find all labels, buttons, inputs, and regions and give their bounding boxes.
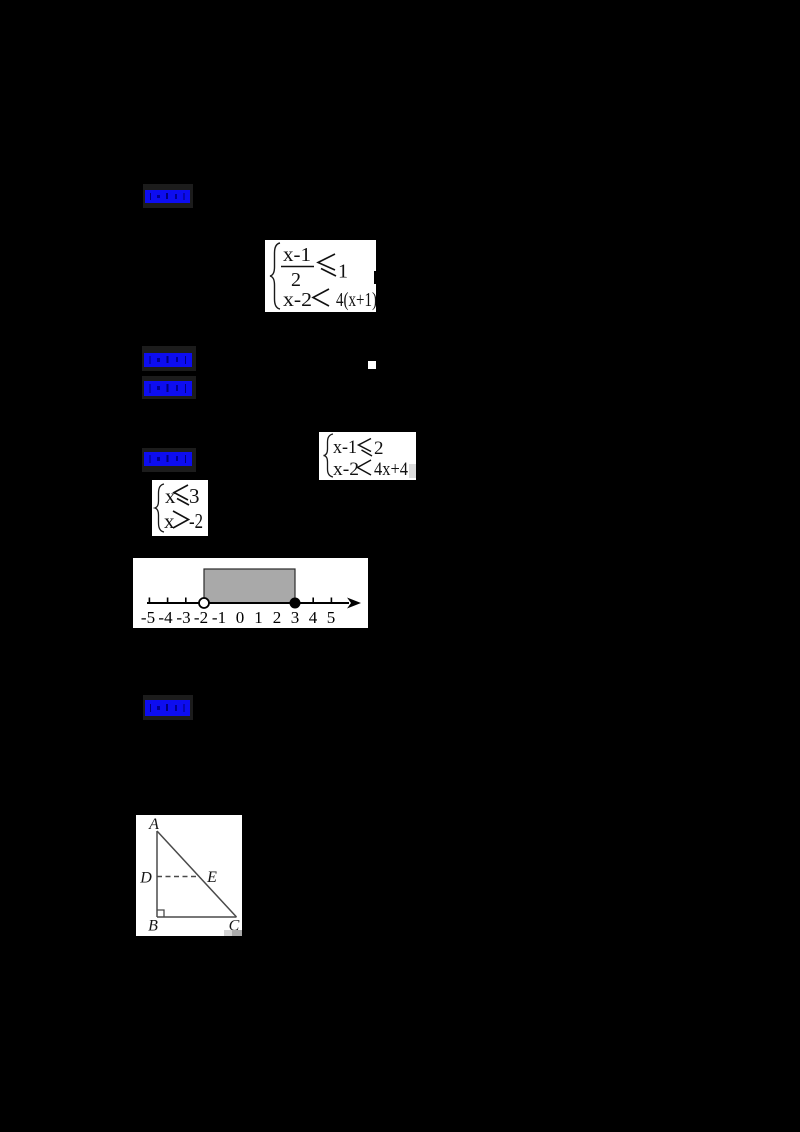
side BC (horizontal) bbox=[157, 916, 237, 918]
svg-text:-3: -3 bbox=[176, 608, 190, 627]
svg-text:x: x bbox=[165, 484, 176, 508]
right angle mark at B bbox=[157, 910, 164, 917]
formula box 2: system {x-1<=2 ; x-2<4x+4} bbox=[319, 432, 416, 480]
left curly brace bbox=[155, 484, 164, 532]
svg-text:4: 4 bbox=[309, 608, 318, 627]
arrow head bbox=[347, 598, 361, 609]
tick marks bbox=[149, 598, 331, 604]
label 3 blue text blob bbox=[144, 380, 193, 397]
number labels bbox=[141, 608, 335, 627]
label 4 blue text blob bbox=[144, 451, 193, 467]
left curly brace bbox=[324, 434, 334, 477]
light gray artifact patch bottom-right of box 2 bbox=[409, 464, 416, 478]
svg-text:-5: -5 bbox=[141, 608, 155, 627]
label 2 blue text blob bbox=[144, 352, 193, 368]
svg-text:-2: -2 bbox=[189, 509, 203, 533]
svg-text:x-2: x-2 bbox=[333, 459, 359, 479]
side AB (vertical) bbox=[156, 831, 158, 917]
leq sign bbox=[318, 254, 335, 270]
label 5 backdrop bbox=[143, 695, 193, 720]
svg-text:3: 3 bbox=[291, 608, 300, 627]
label 5 blue text blob bbox=[145, 699, 191, 717]
left curly brace bbox=[270, 243, 280, 309]
label 3 backdrop bbox=[142, 376, 196, 399]
number line figure bbox=[133, 558, 368, 628]
svg-text:x-1: x-1 bbox=[333, 437, 357, 458]
svg-text:A: A bbox=[148, 816, 159, 833]
triangle figure ABC with D,E bbox=[136, 815, 242, 936]
formula box 3: system {x<=3 ; x>-2} bbox=[152, 480, 208, 536]
shaded interval rectangle (-2,3] bbox=[204, 569, 295, 603]
svg-text:3: 3 bbox=[189, 484, 200, 508]
svg-text:0: 0 bbox=[236, 608, 245, 627]
svg-text:D: D bbox=[139, 870, 152, 887]
small white dot (period image) bbox=[368, 361, 376, 369]
svg-text:-4: -4 bbox=[158, 608, 173, 627]
label 1 blue text blob bbox=[145, 189, 191, 204]
svg-text:x: x bbox=[164, 509, 175, 533]
svg-text:-2: -2 bbox=[194, 608, 208, 627]
svg-text:1: 1 bbox=[254, 608, 263, 627]
svg-text:x-1: x-1 bbox=[283, 244, 311, 266]
open circle at -2 bbox=[199, 598, 209, 608]
filled circle at 3 bbox=[290, 598, 301, 609]
svg-text:x-2: x-2 bbox=[283, 289, 312, 311]
dashed segment DE bbox=[157, 876, 199, 878]
svg-text:2: 2 bbox=[273, 608, 282, 627]
svg-text:E: E bbox=[206, 869, 217, 886]
formula box 1: system {(x-1)/2<=1 ; x-2<4(x+1)} bbox=[265, 240, 376, 312]
small black notch on right edge of formula box 1 bbox=[374, 271, 376, 284]
gray artifact patches bottom-right bbox=[224, 930, 232, 936]
label 2 backdrop bbox=[142, 346, 196, 371]
svg-text:5: 5 bbox=[327, 608, 336, 627]
side AC (hypotenuse) bbox=[157, 831, 237, 917]
svg-text:B: B bbox=[148, 918, 158, 935]
svg-text:1: 1 bbox=[338, 261, 348, 283]
axis line bbox=[147, 602, 349, 604]
label 1 backdrop bbox=[143, 184, 193, 208]
svg-text:4x+4: 4x+4 bbox=[374, 459, 408, 479]
svg-text:2: 2 bbox=[374, 438, 384, 459]
svg-text:-1: -1 bbox=[212, 608, 226, 627]
svg-text:2: 2 bbox=[291, 269, 301, 291]
fraction bar bbox=[281, 266, 314, 268]
label 4 backdrop bbox=[142, 448, 196, 472]
svg-text:4(x+1): 4(x+1) bbox=[336, 289, 376, 311]
